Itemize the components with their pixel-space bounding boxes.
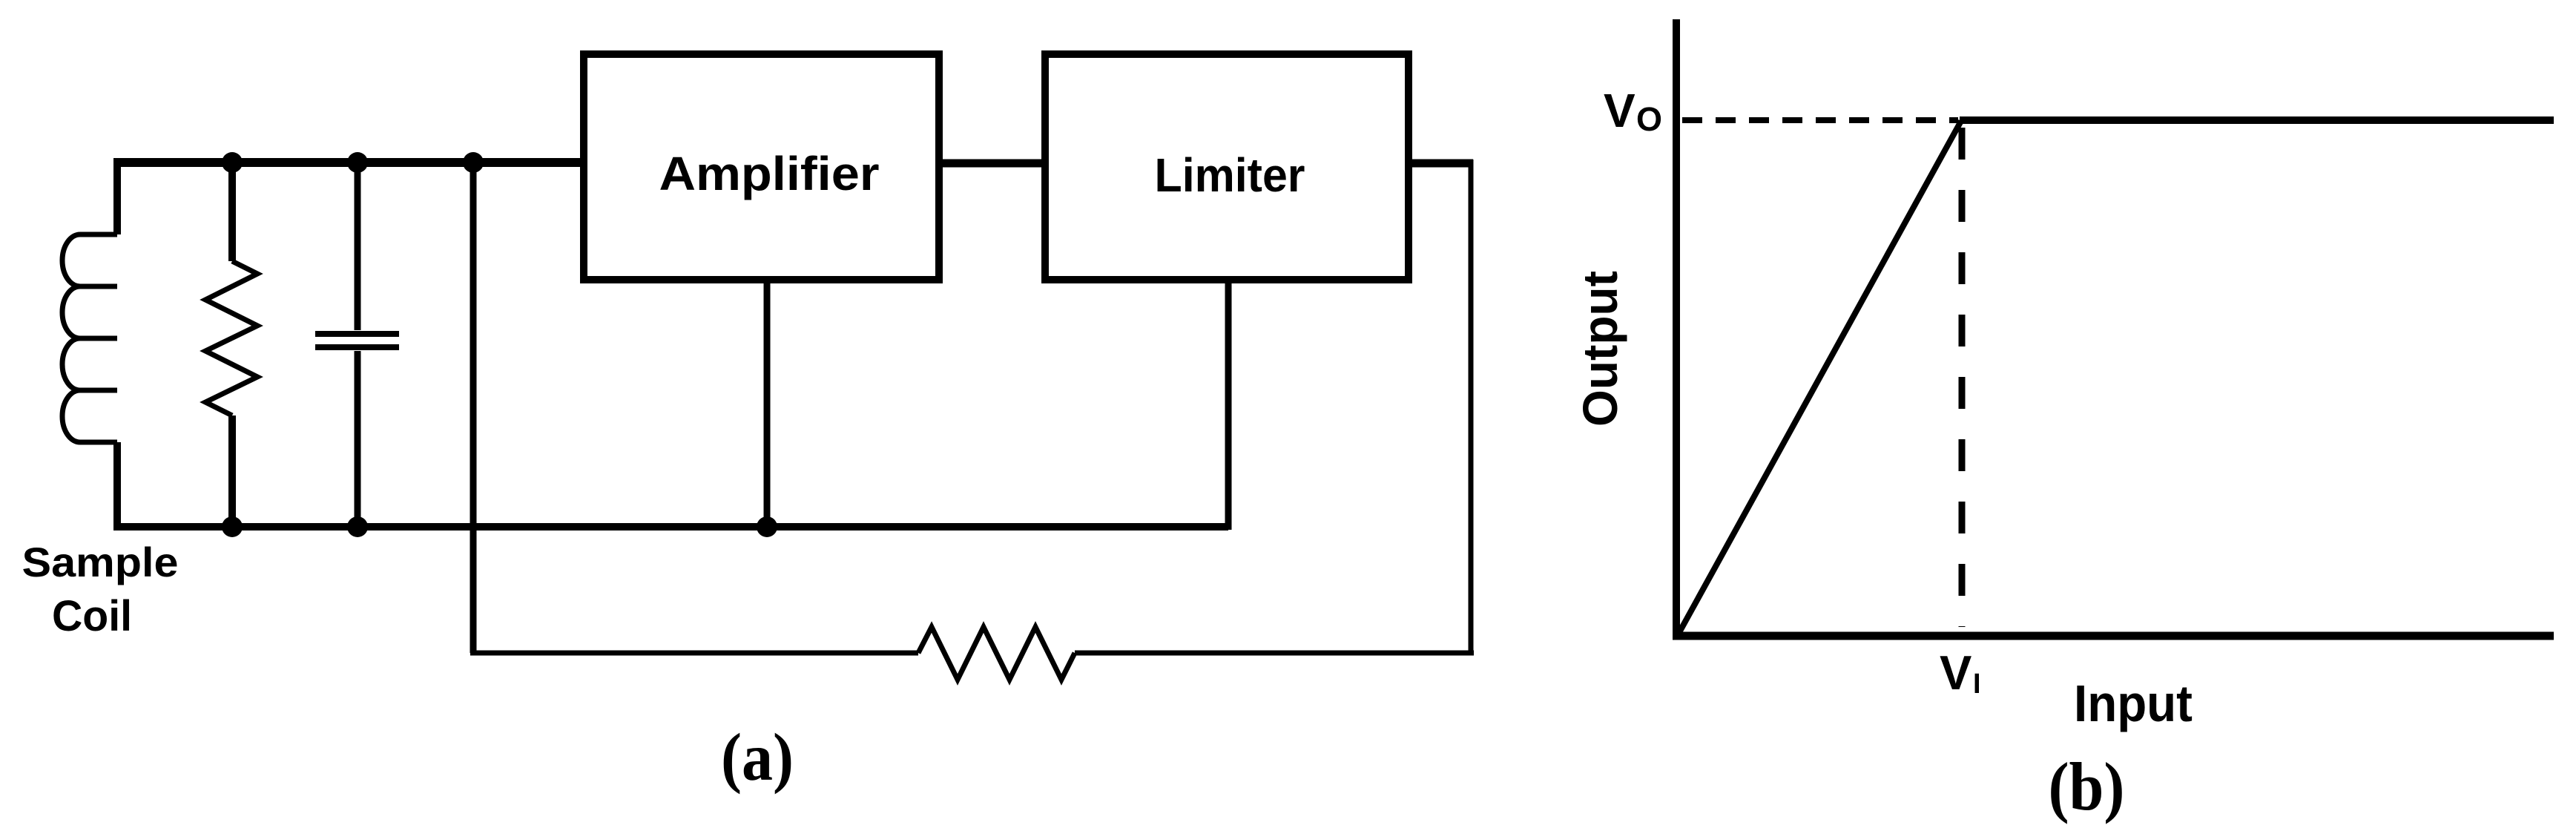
graph x-axis [1673,632,2554,640]
junction dot bottom amplifier ground node [757,516,777,537]
capacitor C tank [355,162,361,330]
wire top bus from tank to Amplifier [117,158,584,167]
dashed level Vo [1682,117,1958,123]
wire limiter ground lead [1225,280,1232,530]
svg-text:V: V [1604,84,1635,137]
wire feedback bottom left [470,651,918,656]
svg-text:Limiter: Limiter [1155,148,1305,202]
junction dot bottom resistor node [222,516,243,537]
resistor R tank [228,162,236,261]
resistor R feedback [918,627,1075,680]
wire left vertical upper (tank left, top) [113,158,121,234]
junction dot top resistor node [222,152,243,173]
svg-text:Coil: Coil [52,592,132,640]
wire left vertical lower (tank left, bottom) [113,442,121,531]
svg-text:O: O [1636,100,1662,138]
curve saturation line [1960,116,2554,124]
svg-text:I: I [1973,669,1981,700]
svg-text:V: V [1940,646,1971,700]
wire bottom bus of tank [113,523,1228,531]
junction dot bottom capacitor node [347,516,368,537]
curve linear diagonal [1678,121,1961,635]
wire feedback bottom right [1075,651,1474,656]
svg-text:(a): (a) [721,720,794,795]
amplifier block U1 [584,54,939,280]
wire right vertical feedback [1469,160,1474,653]
dashed threshold Vi [1959,128,1966,627]
limiter block U2 [1045,54,1409,280]
svg-text:(b): (b) [2049,749,2125,824]
svg-text:Input: Input [2074,674,2193,732]
svg-text:Amplifier: Amplifier [659,147,880,200]
wire Amplifier to Limiter [939,160,1046,168]
wire Limiter output to right corner [1409,160,1473,168]
wire amplifier ground lead [764,280,771,527]
inductor L sample coil [62,234,117,442]
junction dot top capacitor node [347,152,368,173]
svg-text:Sample: Sample [22,539,179,585]
svg-text:Output: Output [1572,271,1627,427]
graph y-axis [1673,19,1680,640]
junction dot top feedback node [463,152,484,173]
wire feedback left vertical [470,162,477,653]
